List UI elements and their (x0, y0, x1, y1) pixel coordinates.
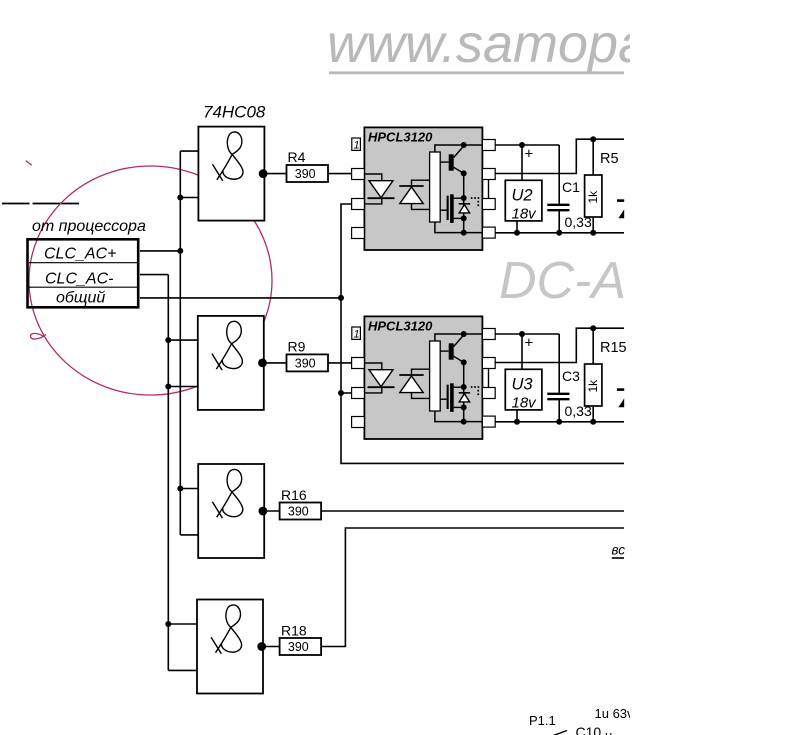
wire pin8 rail ch2 (495, 333, 559, 335)
bus CLC_AC+ vertical (179, 151, 181, 535)
node C1 bottom junction (556, 230, 562, 236)
wire U3 bottom lead (516, 410, 518, 422)
dc-dc block U3 (505, 369, 542, 410)
svg-text:u: u (605, 728, 612, 735)
watermark www.samopa (327, 14, 648, 74)
white mask for right page cut (630, 0, 800, 735)
svg-text:74HC08: 74HC08 (203, 103, 266, 122)
wire gate2 input A (168, 339, 198, 341)
wire gate2 out to R9 (263, 362, 287, 364)
switch lever partial (552, 731, 567, 735)
resistor R18 390 (280, 638, 322, 655)
svg-text:R15: R15 (600, 340, 627, 356)
svg-text:DC-A: DC-A (499, 252, 626, 310)
connector label box (28, 239, 139, 307)
wire R5 top lead (592, 139, 594, 175)
gate 1 (74HC08) (198, 127, 267, 221)
wire R4 to pin2 (328, 173, 352, 175)
svg-text:18v: 18v (512, 206, 538, 223)
underline for вс (612, 557, 624, 559)
svg-text:C10: C10 (576, 724, 602, 735)
wire pin7 output loop ch2 (495, 328, 624, 362)
svg-text:C3: C3 (562, 368, 580, 384)
wire общий (140, 297, 341, 299)
node gate2 A junction (165, 337, 171, 343)
svg-text:от процессора: от процессора (32, 218, 146, 235)
node gate1 B junction (177, 195, 183, 201)
node U2 bottom junction (514, 230, 520, 236)
resistor R16 390 (280, 503, 322, 520)
svg-text:CLC_AC+: CLC_AC+ (44, 246, 116, 263)
optocoupler DA2 HPCL3120 (352, 316, 496, 439)
node gate3 A junction (177, 486, 183, 492)
svg-text:U3: U3 (512, 376, 534, 394)
wire U3 plus lead (521, 334, 523, 369)
wire R5 bottom lead (592, 217, 594, 233)
node gate4 A junction (165, 621, 171, 627)
stray wire top left (2, 203, 79, 205)
dc-dc block U2 (505, 180, 542, 221)
node общий T junction (338, 295, 344, 301)
resistor R5 1k (585, 175, 602, 217)
svg-text:R16: R16 (281, 487, 307, 503)
row separator (29, 262, 139, 264)
gate 2 (74HC08) (198, 316, 267, 410)
gate 3 (74HC08) (198, 464, 267, 558)
svg-text:вс: вс (612, 543, 626, 558)
wire gate3 input A (180, 488, 198, 490)
wire R18 output (321, 528, 624, 647)
wire gate3 input B (180, 534, 198, 536)
wire bottom rail ch1 (495, 232, 624, 234)
svg-text:+: + (525, 146, 534, 163)
node R5 bottom junction (590, 230, 596, 236)
svg-text:18v: 18v (512, 395, 538, 412)
wire R16 output (321, 510, 624, 512)
wire opto2 pin3 stub (341, 392, 352, 394)
wire CLC_AC- (140, 274, 168, 276)
svg-text:+: + (525, 335, 534, 352)
node R15 top junction (590, 325, 596, 331)
svg-text:R9: R9 (288, 339, 306, 355)
node R15 bottom junction (590, 419, 596, 425)
svg-text:R5: R5 (600, 151, 619, 167)
hand-drawn loop on circle (30, 333, 46, 339)
svg-text:1u 63v: 1u 63v (595, 706, 635, 721)
svg-text:общий: общий (56, 290, 105, 307)
capacitor C1 plates (547, 204, 569, 206)
wire pin7 output loop (495, 139, 624, 173)
svg-text:CLC_AC-: CLC_AC- (45, 270, 113, 287)
stray pen mark (26, 161, 32, 166)
wire pin8 rail (495, 144, 559, 146)
node U3 bottom junction (514, 419, 520, 425)
svg-text:www.samopa: www.samopa (327, 14, 648, 74)
node R5 top junction (590, 136, 596, 142)
node opto2 pin3 junction (338, 390, 344, 396)
wire gate4 input A (168, 623, 197, 625)
row separator (29, 286, 139, 288)
node gate2 B junction (165, 384, 171, 390)
node U2 plus junction (519, 142, 525, 148)
wire gate2 input B (168, 386, 198, 388)
wire gate3 out to R16 (263, 510, 280, 512)
svg-text:C1: C1 (562, 179, 580, 195)
wire R9 to pin2 of opto2 (328, 362, 352, 364)
zener partial ch1 (617, 199, 624, 202)
wire gate4 out to R18 (262, 646, 280, 648)
svg-text:R18: R18 (281, 623, 307, 639)
wire bottom rail ch2 (495, 421, 624, 423)
wire common bus vertical to opto pins 3 (341, 204, 624, 463)
wire gate4 input B (168, 669, 197, 671)
node U3 plus junction (519, 331, 525, 337)
node CLC_AC+ junction (177, 248, 183, 254)
hand-drawn highlight circle (29, 166, 272, 395)
wire U2 plus lead (521, 145, 523, 180)
svg-text:R4: R4 (288, 149, 306, 165)
wire gate1 input B (180, 197, 198, 199)
wire gate1 input A (180, 150, 198, 152)
optocoupler DA1 HPCL3120 (352, 127, 496, 250)
gate 4 (74HC08) (197, 600, 266, 694)
white mask right reprise (630, 0, 800, 735)
resistor R9 390 (287, 354, 329, 371)
svg-text:P1.1: P1.1 (529, 713, 556, 728)
svg-text:U2: U2 (512, 187, 533, 205)
capacitor C3 plates (547, 393, 569, 395)
wire gate1 out to R4 (263, 173, 286, 175)
bus CLC_AC- vertical (167, 275, 169, 671)
wire CLC_AC+ (140, 250, 180, 252)
wire R15 bottom lead (592, 406, 594, 422)
wire U2 bottom lead (516, 221, 518, 233)
resistor R15 1k (585, 364, 602, 406)
net label вс output (612, 543, 626, 558)
wire R15 top lead (592, 328, 594, 364)
node C3 bottom junction (556, 419, 562, 425)
capacitor C1 leads (558, 145, 560, 233)
resistor R4 390 (287, 165, 329, 182)
capacitor C3 leads (558, 334, 560, 422)
zener partial ch2 (617, 388, 624, 391)
